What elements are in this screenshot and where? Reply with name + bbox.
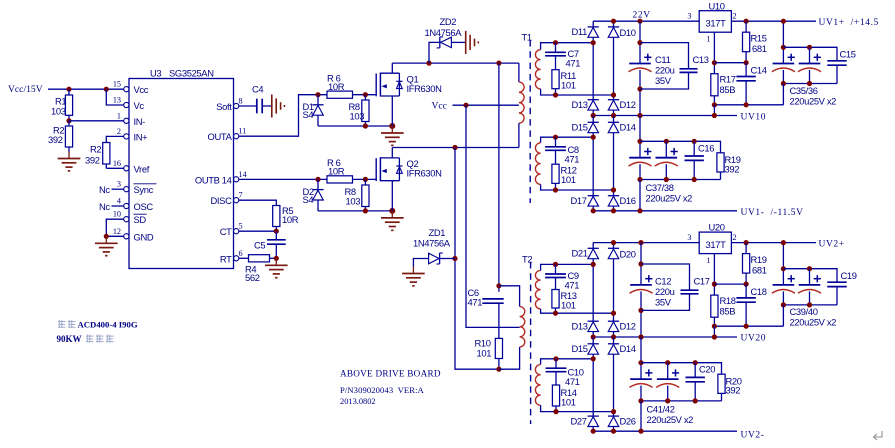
svg-text:OUTA: OUTA [208,131,233,142]
svg-text:220u25V x2: 220u25V x2 [646,192,693,203]
svg-text:C12: C12 [655,275,671,286]
resistor R6 (bottom) [327,176,353,183]
wire UV20 to negative caps [640,337,642,379]
svg-text:UV2-: UV2- [741,431,765,441]
pin 7 DISC [234,198,239,203]
node junction ZD2 [426,61,431,66]
wire RT pin to R4 [239,257,249,259]
svg-text:6: 6 [239,249,243,258]
svg-text:220u: 220u [655,286,675,297]
resistor R2 [65,126,72,147]
svg-text:UV2+: UV2+ [819,239,845,249]
svg-text:471: 471 [566,58,581,69]
svg-text:Nc: Nc [99,184,110,195]
wire Vref pin 16 [106,167,124,169]
wire Q2 drain rail [392,147,519,149]
op-amp U20 317T [699,232,731,254]
capacitor C10 [553,356,558,361]
svg-text:UV1+ /+14.5: UV1+ /+14.5 [819,18,879,28]
svg-text:35V: 35V [655,296,672,307]
diode D14 [613,116,615,123]
svg-text:1: 1 [117,111,121,120]
capacitor C16 [693,141,695,156]
transformer T1 primary coil [518,63,520,82]
svg-text:D27: D27 [571,416,587,427]
wire negative caps bottom bus [640,179,721,181]
resistor R8 (top) [362,100,369,122]
wire U10 output rail [731,20,816,22]
svg-text:317T: 317T [706,18,727,29]
svg-text:IN+: IN+ [134,131,149,142]
wire caps bottom bus [783,83,837,85]
wire UV2- rail [593,430,737,432]
diode D13 [588,99,599,101]
svg-text:15: 15 [113,80,121,89]
svg-text:DISC: DISC [211,195,233,206]
diode D11 [592,21,594,27]
svg-text:681: 681 [752,43,767,54]
svg-text:11: 11 [239,127,247,136]
wire OUTB to gate network [239,178,327,180]
wire UV1- rail [593,210,737,212]
svg-text:1: 1 [706,256,710,265]
wire U20 adj pin [713,254,715,296]
wire C4 to ground [262,105,271,107]
svg-text:D17: D17 [571,195,587,206]
diode D13 (lower) [588,320,599,322]
diode D20 [613,243,615,249]
svg-text:90KW: 90KW [57,334,82,344]
transformer T2 core [530,262,532,424]
capacitor C39 (electrolytic) [773,284,795,286]
pin 3 Sync [124,187,129,192]
svg-text:S4: S4 [303,109,314,120]
node junction adj node (lower) [712,282,717,287]
wire D1/R8 bottom to source [318,125,392,127]
wire GND pin 12 [106,235,124,237]
svg-text:101: 101 [477,348,492,359]
capacitor C13 [640,43,689,69]
node junction T2 primary top [496,283,501,288]
wire stub to UV20 rail [713,326,715,337]
svg-text:392: 392 [725,163,740,174]
svg-text:Sync: Sync [134,184,154,195]
svg-text:22V: 22V [633,11,651,21]
wire Vcc/15V to pin 15 [48,88,124,90]
zener ZD1 1N4756A [455,148,499,370]
resistor R14 [552,385,559,406]
svg-text:S4: S4 [303,194,314,205]
capacitor C5 [275,231,277,240]
node junction R8 top (bottom channel) [363,177,368,182]
wire caps to bottom line [782,305,784,326]
node junction C12 top [638,240,643,245]
resistor R12 [552,164,559,183]
svg-text:471: 471 [565,153,580,164]
svg-text:C5: C5 [254,240,265,251]
svg-text:C13: C13 [693,54,709,65]
svg-text:D13: D13 [572,99,588,110]
wire DISC pin to R5 [239,200,276,205]
wire R6 to R8/gate [353,178,377,180]
diode D1 S4 [317,95,319,105]
svg-text:D14: D14 [620,343,636,354]
svg-text:3: 3 [117,180,121,189]
node junction C5/R4 ground [274,256,279,261]
resistor R1 [65,95,72,115]
transformer T1 secondary 1 coil [541,43,594,50]
wire UV10 rail [593,115,737,117]
svg-text:C20: C20 [699,364,715,375]
ground at Q1 source [391,126,393,133]
wire caps top bus (lower) [783,269,837,283]
node junction D1 top [315,92,320,97]
svg-text:101: 101 [561,397,576,408]
wire adj to R15 bottom [714,62,746,64]
svg-text:CT: CT [220,226,232,237]
pin 6 RT [234,256,239,261]
node junction R8 bottom [363,123,368,128]
node junction R1 top [66,87,71,92]
svg-text:1N4756A: 1N4756A [425,27,463,38]
svg-text:Nc: Nc [99,201,110,212]
capacitor C12 220u 35V [640,243,642,285]
svg-text:R19: R19 [751,254,767,265]
transistor Q2 IFR630N [375,158,377,181]
svg-text:103: 103 [51,105,66,116]
svg-text:681: 681 [752,264,767,275]
zener ZD2 1N4756A [429,42,440,63]
svg-text:D16: D16 [620,195,636,206]
node junction C11 top [637,19,642,24]
capacitor C17 [641,264,690,290]
svg-text:101: 101 [561,174,576,185]
svg-text:2: 2 [117,127,121,136]
pin 8 Soft [234,103,239,108]
diode D27 [588,415,599,417]
svg-text:GND: GND [134,231,154,242]
capacitor C37 (electrolytic) [629,157,651,159]
diode D17 [588,195,599,197]
svg-text:C35/36: C35/36 [790,85,818,96]
node junction winding2 top [591,135,596,140]
wire caps to UV10 line [782,84,784,105]
ground at CT network [275,258,277,265]
svg-text:C19: C19 [841,270,857,281]
resistor R15 681 [745,21,747,32]
wire output rail to caps [782,21,784,63]
ground at Q2 source [391,211,393,218]
svg-text:392: 392 [48,134,63,145]
diode D15 [592,116,594,123]
op-amp U10 317T [699,11,731,33]
svg-text:U10: U10 [709,0,725,11]
wire caps top bus [783,47,837,61]
resistor R19 392 [717,153,724,172]
capacitor C20 [694,363,696,378]
node junction UV20/C12 [638,334,643,339]
wire R6 to R8/gate [353,94,377,96]
node junction 22V rail / D10 [611,19,616,24]
svg-text:220u25V x2: 220u25V x2 [790,317,837,328]
svg-text:D12: D12 [620,321,636,332]
svg-text:C17: C17 [694,275,710,286]
wire to UV1- rail [639,180,641,211]
node junction winding2 bottom [611,187,616,192]
wire Vcc feed down to T2 center tap [466,105,520,327]
svg-text:2: 2 [733,12,737,21]
svg-text:UV10: UV10 [741,112,767,122]
capacitor C15 [827,60,846,62]
svg-text:U20: U20 [709,222,725,233]
svg-text:C15: C15 [840,49,856,60]
wire T2 top feed [498,63,500,292]
resistor R4 [249,255,270,262]
resistor R19 681 (lower) [745,243,747,254]
transformer T2 secondary 1 coil [541,264,594,270]
capacitor C7 [553,40,558,45]
svg-text:16: 16 [113,159,121,168]
wire U20 output rail [731,242,816,244]
wire R18/C18 bottom line [714,325,783,327]
node junction T2 top feed [496,61,501,66]
svg-text:D11: D11 [572,26,588,37]
svg-text:SD: SD [134,214,147,225]
svg-text:562: 562 [245,272,260,283]
wire Soft pin to C4 [239,105,257,107]
svg-text:Vcc: Vcc [134,84,149,95]
diode D12 [608,99,619,101]
node junction UV10/C11 [637,113,642,118]
transformer T2 secondary 2 coil [541,359,593,365]
wire UV20 rail [593,336,737,338]
pin 5 CT [234,229,239,234]
diode D2 S4 [317,179,319,189]
svg-text:IFR630N: IFR630N [407,83,442,94]
resistor R8 (bottom) [362,185,369,207]
svg-text:1: 1 [706,35,710,44]
svg-text:35V: 35V [655,75,672,86]
svg-text:3: 3 [687,233,691,242]
diode D10 [613,21,615,27]
node junction R1/R2/IN- [66,118,71,123]
svg-text:C39/40: C39/40 [790,306,818,317]
wire to UV2- rail [640,401,642,431]
node junction R15 top [744,19,749,24]
svg-text:D12: D12 [620,99,636,110]
svg-text:OUTB 14: OUTB 14 [195,174,232,185]
svg-text:D13: D13 [572,321,588,332]
svg-text:317T: 317T [706,239,727,250]
wire negative caps bottom bus (lower) [641,400,722,402]
svg-text:D15: D15 [572,122,588,133]
wire 22V rail [593,20,699,22]
svg-text:IFR630N: IFR630N [407,168,442,179]
wire R17/C14 bottom line [714,104,783,106]
wire adj to R19 bottom [714,283,746,285]
capacitor C35 (electrolytic) [773,63,795,65]
svg-text:C18: C18 [751,286,767,297]
pin 14 OUTB 14 [234,177,239,182]
svg-text:SG3525AN: SG3525AN [169,68,214,79]
wire D2/R8 bottom to source [318,210,392,212]
svg-text:ZD1: ZD1 [429,227,446,238]
pin 1 IN- [124,118,129,123]
ground below R2 [68,152,70,159]
svg-text:85B: 85B [720,84,736,95]
svg-text:4: 4 [117,197,121,206]
svg-text:220u25V x2: 220u25V x2 [790,95,837,106]
svg-text:Vref: Vref [134,163,150,174]
wire negative caps top bus [640,141,721,153]
wire T2 primary top lead [499,286,520,307]
svg-text:D15: D15 [572,343,588,354]
svg-text:OSC: OSC [134,201,154,212]
node junction T2 winding2 bottom [611,409,616,414]
capacitor C4 [256,99,258,114]
op-amp U3 SG3525AN body [129,79,234,269]
transformer T1 secondary 2 coil [541,137,593,143]
svg-text:P/N309020043 VER:A: P/N309020043 VER:A [340,385,425,395]
pin 11 OUTA [234,134,239,139]
node junction D2 top [315,177,320,182]
svg-text:5: 5 [239,222,243,231]
svg-text:101: 101 [561,299,576,310]
svg-text:392: 392 [85,154,100,165]
resistor R6 (top) [327,91,353,98]
svg-text:12: 12 [113,227,121,236]
node junction Q1 source ground [389,123,395,129]
transistor Q1 IFR630N [375,74,377,97]
carriage return mark [874,431,883,440]
wire Vc pin 13 branch [106,89,124,105]
svg-text:D26: D26 [620,416,636,427]
svg-text:C14: C14 [751,65,767,76]
svg-text:2: 2 [733,233,737,242]
svg-text:14: 14 [239,170,247,179]
svg-text:471: 471 [565,376,580,387]
svg-text:C16: C16 [698,142,714,153]
wire stub to UV10 rail [713,105,715,116]
svg-text:R15: R15 [751,33,767,44]
svg-text:101: 101 [561,80,576,91]
node junction R8 top [363,92,368,97]
wire UV10 to negative caps [639,116,641,158]
wire Vcc to T1 center tap [453,104,519,106]
wire OUTA to gate network [239,95,327,137]
diode D16 [608,195,619,197]
svg-text:85B: 85B [720,305,736,316]
ground below GND pin [105,236,107,243]
pin 13 Vc [124,102,129,107]
diode D14 (lower) [613,337,615,344]
node junction winding1 bottom [611,92,616,97]
node junction T2 winding1 top [591,262,596,267]
svg-text:Soft: Soft [216,101,232,112]
svg-text:D20: D20 [620,249,636,260]
capacitor C8 [553,135,558,140]
capacitor C36 (electrolytic) [809,47,811,63]
node junction R19 top [744,240,749,245]
svg-text:103: 103 [350,111,365,122]
node junction rail / D20 [611,240,616,245]
diode D12 (lower) [608,320,619,322]
svg-text:C11: C11 [655,54,671,65]
svg-text:10: 10 [113,210,121,219]
pin 12 GND [124,234,129,239]
node junction adj node [712,60,717,65]
svg-text:10R: 10R [282,214,299,225]
svg-text:Vcc: Vcc [432,101,447,112]
node junction CT/R5/C5 [274,229,279,234]
ground at ZD2 (rotated) [465,31,467,54]
svg-text:C41/42: C41/42 [647,403,675,414]
transformer T1 core [529,40,531,203]
svg-text:13: 13 [113,96,121,105]
resistor R13 [552,290,559,309]
wire Q1 drain rail [392,62,519,64]
svg-text:103: 103 [346,195,361,206]
svg-text:Vc: Vc [134,100,145,111]
node junction SD/GND [104,234,109,239]
wire U20 input rail [593,242,699,244]
svg-text:C4: C4 [252,84,263,95]
svg-text:RT: RT [220,253,232,264]
capacitor C9 [553,262,558,267]
resistor R5 [273,206,280,227]
svg-text:D14: D14 [620,122,636,133]
svg-text:220u25V x2: 220u25V x2 [647,414,694,425]
wire negative caps top bus (lower) [641,363,722,375]
wire output rail to caps (lower) [782,243,784,285]
pin 16 Vref [124,166,129,171]
svg-text:8: 8 [239,97,243,106]
svg-text:471: 471 [565,279,580,290]
wire IN+ pin 2 branch [106,136,124,142]
svg-text:7: 7 [239,191,243,200]
resistor R17 85B [711,74,718,96]
svg-text:3: 3 [687,12,691,21]
resistor R11 [552,70,559,89]
node junction Vc branch [104,87,109,92]
svg-text:220u: 220u [655,65,675,76]
node junction T2 winding2 top [591,356,596,361]
capacitor C38 (electrolytic) [665,141,667,157]
wire SD pin 10 branch [106,219,124,236]
capacitor C14 [745,63,747,77]
capacitor C41 (electrolytic) [630,378,652,380]
wire T2 primary bottom lead [499,347,520,369]
svg-text:U3: U3 [150,68,161,79]
ground at ZD1 [412,267,414,274]
svg-text:10R: 10R [328,81,345,92]
svg-text:IN-: IN- [134,116,146,127]
pin 2 IN+ [124,134,129,139]
svg-text:392: 392 [726,385,741,396]
capacitor C42 (electrolytic) [667,363,669,379]
capacitor C6 [482,298,503,300]
wire IN- pin 1 [69,120,124,122]
ground at C4 (rotated) [271,95,273,118]
resistor R18 85B [711,295,718,317]
svg-text:Vcc/15V: Vcc/15V [8,84,43,95]
project label text [58,320,66,328]
capacitor C11 220u 35V [639,21,641,63]
svg-text:10R: 10R [328,166,345,177]
svg-text:471: 471 [468,297,483,308]
resistor R10 [495,338,502,358]
resistor R2 (IN+ to Vref) [103,143,110,165]
